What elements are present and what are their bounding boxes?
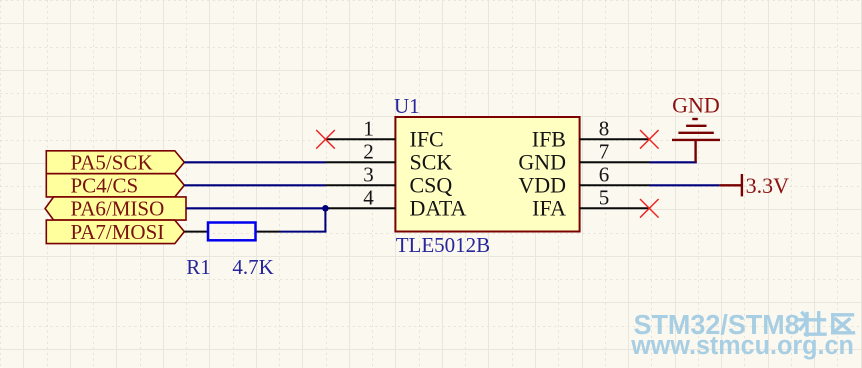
svg-text:5: 5 [599,186,610,210]
svg-text:4.7K: 4.7K [232,255,273,279]
svg-text:TLE5012B: TLE5012B [396,233,491,257]
pin 5 IFA [532,186,649,221]
svg-text:DATA: DATA [410,196,467,221]
svg-text:3.3V: 3.3V [746,173,790,198]
svg-text:8: 8 [599,117,610,141]
svg-text:PA6/MISO: PA6/MISO [71,197,165,221]
pin 6 VDD [518,163,649,198]
no-connect X pin 5 [640,199,659,218]
no-connect X pin 1 [316,130,335,149]
svg-text:SCK: SCK [410,150,453,175]
power 3.3V bar [719,174,743,196]
pin 4 DATA [326,186,467,221]
no-connect X pin 8 [640,130,659,149]
port PC4/CS [46,173,184,197]
svg-text:4: 4 [363,186,374,210]
svg-text:IFC: IFC [410,127,444,152]
svg-text:PA7/MOSI: PA7/MOSI [71,220,165,244]
svg-text:IFB: IFB [532,127,566,152]
svg-text:GND: GND [518,150,566,175]
wire resistor to vertical [280,231,327,233]
watermark CJK 社区 [800,313,854,335]
svg-text:R1: R1 [186,255,211,279]
pin 8 IFB [532,117,650,152]
svg-text:2: 2 [363,140,374,164]
port PA7/MOSI [46,220,184,244]
svg-text:IFA: IFA [532,196,566,221]
svg-text:PA5/SCK: PA5/SCK [71,150,153,174]
port PA6/MISO [45,197,186,221]
svg-text:6: 6 [599,163,610,187]
wire pin 6 to 3.3V [650,184,720,186]
ground GND [672,119,720,162]
wire PA6/MISO to pin 4 [186,207,326,209]
svg-text:CSQ: CSQ [410,173,453,198]
watermark line 1 [634,309,800,340]
svg-text:www.stmcu.org.cn: www.stmcu.org.cn [630,332,854,360]
svg-text:3: 3 [363,163,374,187]
wire PA5/SCK to pin 2 [184,161,325,163]
wire vertical junction to resistor row [324,208,326,231]
svg-text:7: 7 [599,140,610,164]
watermark line 2 [630,332,854,360]
svg-text:VDD: VDD [518,173,566,198]
pin 7 GND [518,140,649,175]
junction node [322,205,329,212]
chip U1 body [395,117,579,232]
wire PC4/CS to pin 3 [184,184,325,186]
resistor R1 [184,223,280,241]
svg-text:1: 1 [363,117,374,141]
pin 1 IFC [326,117,444,152]
port PA5/SCK [46,150,184,174]
svg-text:GND: GND [672,93,720,118]
wire pin 7 to ground [650,161,697,163]
svg-text:PC4/CS: PC4/CS [71,173,139,197]
svg-text:U1: U1 [394,94,420,118]
pin 2 SCK [326,140,453,175]
pin 3 CSQ [326,163,453,198]
